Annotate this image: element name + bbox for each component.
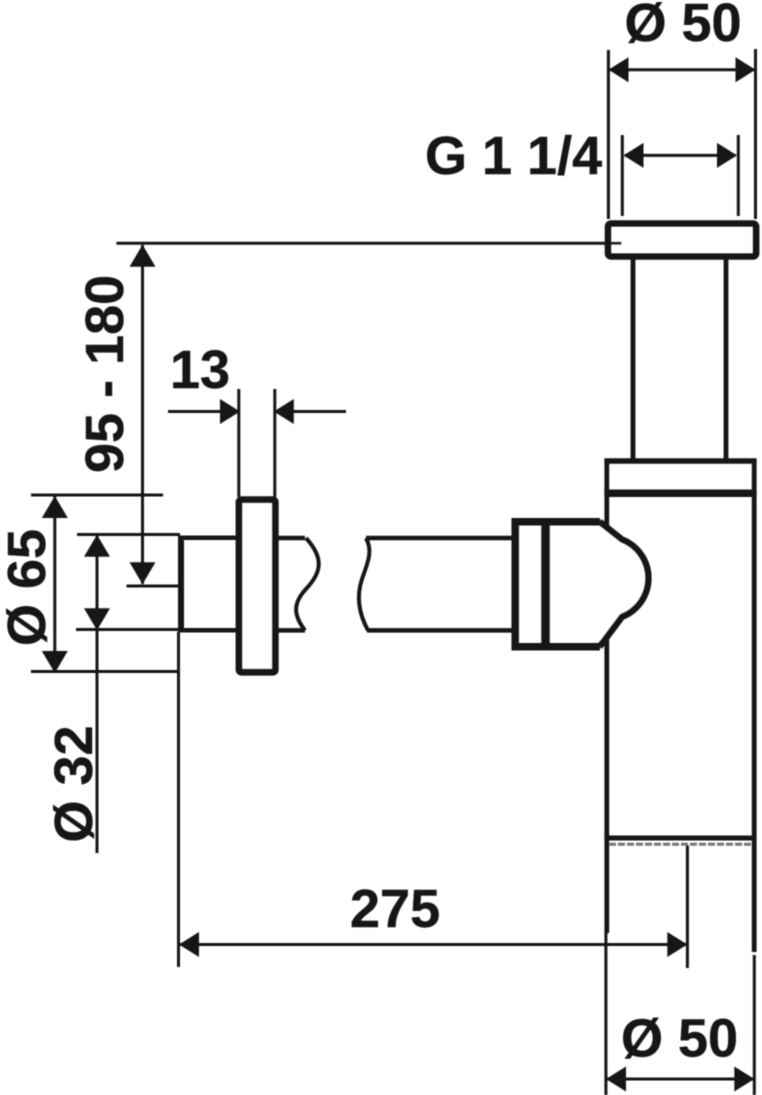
svg-text:G 1 1/4: G 1 1/4 — [425, 126, 602, 186]
svg-text:95 - 180: 95 - 180 — [75, 275, 135, 473]
svg-text:13: 13 — [170, 340, 230, 400]
svg-text:Ø 50: Ø 50 — [621, 1009, 738, 1069]
svg-text:Ø 32: Ø 32 — [44, 725, 104, 842]
svg-text:Ø 50: Ø 50 — [625, 0, 742, 53]
svg-text:275: 275 — [350, 879, 440, 939]
svg-text:Ø 65: Ø 65 — [0, 529, 57, 646]
